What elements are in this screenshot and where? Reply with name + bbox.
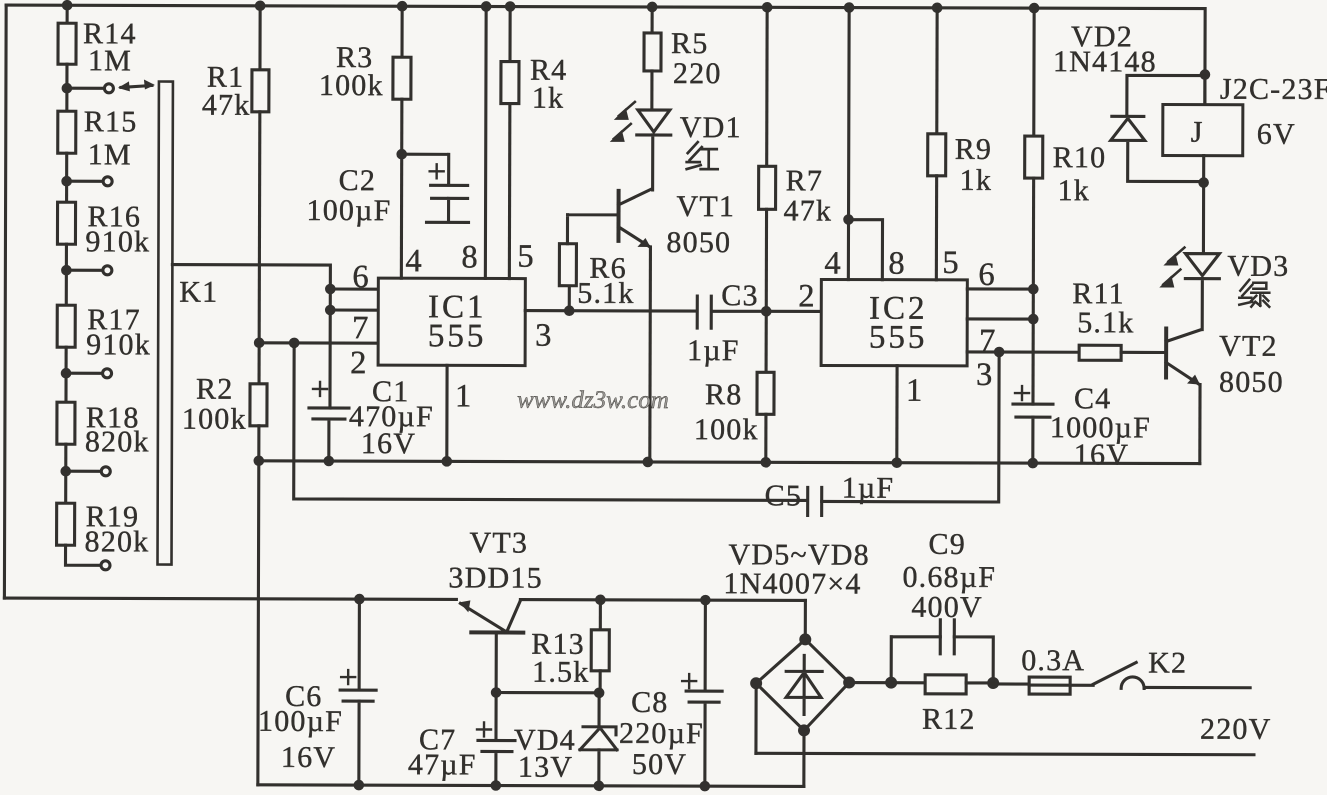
wire top supply bus <box>6 5 1205 105</box>
resistor R1 <box>251 6 269 343</box>
op-amp IC2 555 box <box>821 279 967 365</box>
svg-text:16V: 16V <box>281 741 336 774</box>
svg-text:1: 1 <box>455 378 471 414</box>
text IC2 <box>798 244 996 409</box>
diode VD2 <box>1111 75 1205 181</box>
capacitor C3 <box>697 296 821 328</box>
node pin3 junction <box>994 347 1005 358</box>
text labels column left <box>82 17 568 559</box>
svg-text:VT2: VT2 <box>1219 330 1278 363</box>
svg-text:220µF: 220µF <box>619 717 704 750</box>
op-amp IC1 555 box <box>378 278 525 365</box>
svg-text:47k: 47k <box>784 194 833 227</box>
svg-text:R12: R12 <box>922 703 976 736</box>
wire IC1 pin7 lead <box>330 308 378 311</box>
svg-text:47k: 47k <box>202 89 251 122</box>
glyph hong (red) <box>687 142 718 169</box>
capacitor C9 <box>940 620 954 654</box>
wire IC1 pin6 lead <box>330 287 378 290</box>
fuse 0.3A <box>993 677 1093 694</box>
capacitor C7 <box>477 692 515 785</box>
LED VD1 <box>610 102 671 190</box>
switch bar K1 <box>158 82 173 565</box>
text middle components <box>577 27 833 447</box>
node pin6 dots <box>1028 284 1039 325</box>
capacitor C6 <box>340 599 377 785</box>
svg-text:R9: R9 <box>955 133 993 166</box>
node supply bus dots <box>354 594 711 606</box>
svg-text:100µF: 100µF <box>258 705 343 738</box>
svg-text:1µF: 1µF <box>842 472 895 505</box>
wire IC2 pin2' lead <box>967 317 1033 320</box>
node pin2 dots <box>254 337 300 348</box>
svg-text:555: 555 <box>869 320 928 356</box>
resistor R4 <box>500 7 519 279</box>
svg-text:8: 8 <box>461 239 477 275</box>
svg-text:820k: 820k <box>85 425 150 458</box>
capacitor C4 <box>1013 386 1053 463</box>
wire IC1 pin3 output line <box>525 309 696 313</box>
svg-text:5: 5 <box>517 239 533 275</box>
resistor R6 <box>559 215 616 311</box>
svg-text:J2C-23F: J2C-23F <box>1220 73 1327 106</box>
svg-text:K2: K2 <box>1148 646 1187 679</box>
resistor R19 <box>56 471 101 565</box>
svg-text:4: 4 <box>824 245 840 281</box>
capacitor C8 <box>682 600 723 786</box>
node top bus junction dots <box>62 0 1040 13</box>
capacitor C2 <box>402 154 469 222</box>
node bottom bus dots <box>354 780 711 792</box>
resistor R7 <box>758 7 776 311</box>
resistor R18 <box>57 373 75 471</box>
svg-text:220V: 220V <box>1200 713 1272 746</box>
wire ground drop to bottom bus <box>256 461 260 785</box>
svg-text:2: 2 <box>798 278 814 314</box>
text right components <box>765 19 1327 514</box>
wire IC1 pin8 VCC lead <box>484 6 488 278</box>
node R12 branch dots <box>885 677 999 689</box>
LED VD3 <box>1159 247 1219 329</box>
svg-text:1k: 1k <box>960 164 993 197</box>
node pins 6/7 dots <box>325 284 336 316</box>
bridge rectifier VD5-VD8 <box>756 600 894 786</box>
svg-text:47µF: 47µF <box>408 748 477 781</box>
wire IC1 pin1 to ground <box>445 365 448 461</box>
svg-text:R8: R8 <box>705 378 743 411</box>
wire IC1 pin2 lead <box>259 341 378 344</box>
svg-text:J: J <box>1191 116 1204 149</box>
svg-text:VT3: VT3 <box>470 526 529 559</box>
wire pin7 to C5 feedback line <box>294 343 806 501</box>
resistor R5 <box>644 7 661 110</box>
svg-text:VD3: VD3 <box>1227 250 1289 283</box>
node mid bus junction dots <box>253 455 1038 468</box>
node relay terminals <box>1198 69 1210 188</box>
svg-text:R10: R10 <box>1053 141 1107 174</box>
resistor R12 <box>893 675 993 694</box>
svg-text:1.5k: 1.5k <box>532 656 589 689</box>
resistor R10 <box>1024 8 1043 404</box>
svg-text:100k: 100k <box>182 403 247 436</box>
svg-text:5.1k: 5.1k <box>577 277 634 310</box>
svg-text:3: 3 <box>535 318 551 354</box>
svg-text:4: 4 <box>405 243 421 279</box>
svg-text:C5: C5 <box>765 479 803 512</box>
svg-text:1N4148: 1N4148 <box>1053 45 1157 78</box>
switch K2 <box>1093 662 1250 688</box>
wire mains lower line y753 <box>756 753 1254 754</box>
svg-text:7: 7 <box>352 310 368 346</box>
node R6 junction <box>564 305 575 316</box>
svg-text:910k: 910k <box>86 328 151 361</box>
svg-text:400V: 400V <box>911 591 983 624</box>
wire left frame vertical <box>4 5 6 598</box>
node VT3 base/R13 dots <box>491 687 605 698</box>
svg-text:100µF: 100µF <box>307 194 392 227</box>
svg-text:VD1: VD1 <box>680 111 742 144</box>
wire IC2 pin3 output <box>967 350 1079 353</box>
svg-text:820k: 820k <box>85 525 150 558</box>
text power section <box>258 526 1272 786</box>
capacitor C1 <box>309 382 349 461</box>
resistor R2 <box>250 343 267 461</box>
svg-text:1µF: 1µF <box>687 334 740 367</box>
svg-text:8050: 8050 <box>1219 366 1284 399</box>
text IC1 <box>350 238 552 415</box>
node bridge vertex dots <box>750 633 855 736</box>
resistor R14 <box>58 5 76 88</box>
svg-text:C8: C8 <box>631 686 669 719</box>
svg-text:7: 7 <box>979 323 995 359</box>
svg-text:C2: C2 <box>339 164 377 197</box>
svg-text:13V: 13V <box>518 751 573 784</box>
svg-text:1: 1 <box>906 373 922 409</box>
wire pin3 down to C5 <box>822 351 999 502</box>
svg-text:R5: R5 <box>671 27 709 60</box>
svg-text:www.dz3w.com: www.dz3w.com <box>517 387 669 414</box>
svg-text:100k: 100k <box>694 413 759 446</box>
transistor VT1 <box>618 189 652 462</box>
svg-text:1N4007×4: 1N4007×4 <box>723 567 861 600</box>
svg-text:16V: 16V <box>1074 438 1129 471</box>
node chain tap dots <box>60 83 72 477</box>
resistor R17 <box>57 270 75 373</box>
wire C9 parallel branch <box>891 637 993 683</box>
resistor R3 <box>392 6 411 278</box>
svg-text:1k: 1k <box>1058 174 1091 207</box>
transistor VT2 <box>1166 328 1201 463</box>
svg-text:3: 3 <box>976 357 992 393</box>
node C3/R7/R8 junction <box>761 306 772 317</box>
resistor R11 <box>1079 345 1165 360</box>
svg-text:5: 5 <box>942 245 958 281</box>
wire bottom power bus y786 <box>258 785 804 787</box>
node C2 junction <box>396 149 407 160</box>
svg-text:1M: 1M <box>88 44 132 77</box>
svg-text:C9: C9 <box>929 528 967 561</box>
svg-text:910k: 910k <box>85 225 150 258</box>
transistor VT3 <box>459 600 599 692</box>
svg-text:555: 555 <box>428 318 487 354</box>
svg-text:1k: 1k <box>532 82 565 115</box>
resistor R15 <box>58 88 76 181</box>
svg-text:C3: C3 <box>721 279 759 312</box>
resistor R16 <box>57 181 75 270</box>
svg-text:220: 220 <box>673 57 722 90</box>
resistor R13 <box>591 600 609 693</box>
svg-text:50V: 50V <box>632 748 687 781</box>
svg-text:0.3A: 0.3A <box>1021 644 1085 677</box>
text watermark <box>517 387 669 414</box>
svg-text:R7: R7 <box>786 164 824 197</box>
svg-text:0.68µF: 0.68µF <box>902 561 996 594</box>
wire regulated supply bus y600 <box>4 598 805 600</box>
wiper double arrow <box>118 79 155 91</box>
zener diode VD4 <box>580 693 617 786</box>
svg-text:R2: R2 <box>196 373 234 406</box>
svg-text:100k: 100k <box>319 69 384 102</box>
svg-text:6: 6 <box>978 257 994 293</box>
relay coil J <box>1162 74 1243 253</box>
resistor R9 <box>927 8 946 280</box>
svg-text:VT1: VT1 <box>677 190 736 223</box>
wire IC2 pin4/8 VCC with jog <box>848 8 883 280</box>
wire IC2 pin6 lead <box>967 287 1033 290</box>
wire K1 to IC1 pins 6,7 and C1 <box>172 265 330 408</box>
wire ground mid bus y462 <box>259 461 1200 464</box>
svg-text:16V: 16V <box>361 427 416 460</box>
svg-text:R15: R15 <box>84 105 138 138</box>
glyph lv (green) <box>1239 280 1269 307</box>
node jog junction <box>843 214 854 225</box>
node tap stubs and open terminals <box>65 84 113 570</box>
svg-text:8: 8 <box>888 246 904 282</box>
svg-text:K1: K1 <box>179 276 218 309</box>
svg-text:2: 2 <box>350 345 366 381</box>
svg-text:6V: 6V <box>1257 118 1296 151</box>
svg-text:8050: 8050 <box>666 226 731 259</box>
resistor R8 <box>757 311 774 462</box>
svg-text:1M: 1M <box>88 138 132 171</box>
svg-text:6: 6 <box>352 259 368 295</box>
svg-text:5.1k: 5.1k <box>1077 306 1134 339</box>
svg-text:3DD15: 3DD15 <box>448 561 542 594</box>
capacitor C5 <box>808 487 822 515</box>
wire IC2 pin1 to ground <box>895 366 898 463</box>
